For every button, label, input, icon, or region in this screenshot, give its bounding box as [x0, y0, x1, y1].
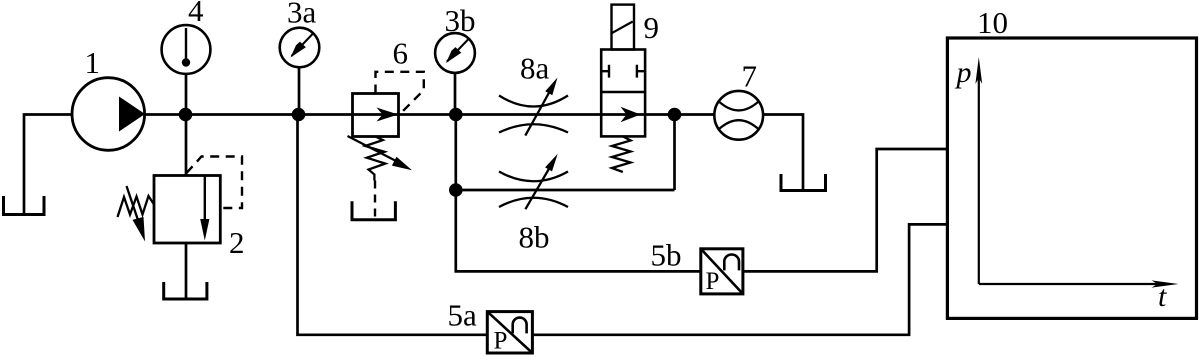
wire: flow meter 7 to tank T3: [763, 115, 803, 191]
wire: node B to valve 6 inlet: [299, 113, 353, 116]
wire: node C up to gauge 3b: [454, 73, 457, 115]
sensor 5a (pressure transducer): [487, 312, 532, 355]
svg-text:7: 7: [742, 59, 758, 94]
label 4: [188, 0, 204, 28]
svg-text:3a: 3a: [287, 0, 317, 30]
valve 9 open-position arrow: [601, 107, 645, 122]
node B (junction below gauge 3a): [292, 108, 306, 122]
svg-text:4: 4: [188, 0, 204, 28]
label 8a: [520, 51, 550, 86]
svg-text:P: P: [706, 268, 720, 295]
label t: [1158, 280, 1167, 313]
recorder 10 box: [947, 38, 1196, 318]
gauge 4 (thermometer): [162, 25, 211, 74]
node C (junction below gauge 3b): [449, 108, 463, 122]
valve 9 body (2/2 directional valve): [601, 50, 645, 137]
valve 6 spring: [365, 137, 385, 181]
svg-text:9: 9: [644, 10, 660, 45]
label 7: [742, 59, 758, 94]
pressure valve 6 body: [353, 94, 399, 137]
svg-text:t: t: [1158, 280, 1167, 313]
svg-text:p: p: [955, 56, 972, 89]
wire: node B down and right to sensor 5a: [298, 115, 488, 335]
valve 6 drain line (dashed): [374, 181, 376, 219]
valve 2 spring adjustment arrow: [127, 186, 146, 242]
tank T3 (return tank): [781, 174, 826, 191]
node D (branch junction to throttle 8b): [449, 183, 463, 197]
svg-text:P: P: [494, 328, 508, 355]
svg-text:1: 1: [85, 45, 101, 80]
wire: valve 9 outlet to node E: [645, 113, 675, 116]
relief valve 2 body: [154, 176, 220, 244]
label p: [955, 56, 972, 89]
wire: node A to node B: [185, 113, 299, 116]
valve 9 solenoid: [612, 5, 635, 50]
label 6: [393, 36, 409, 71]
label 3b: [445, 3, 476, 38]
label 9: [644, 10, 660, 45]
svg-text:6: 6: [393, 36, 409, 71]
throttle valve 8a: [499, 78, 568, 136]
wire: node B up to gauge 3a: [298, 67, 301, 115]
wire: tank T1 to pump inlet: [24, 115, 72, 214]
valve 9 return spring: [612, 136, 631, 172]
label 3a: [287, 0, 317, 30]
svg-text:8a: 8a: [520, 51, 550, 86]
wire: sensor 5b to recorder 10: [743, 149, 948, 271]
svg-text:8b: 8b: [519, 220, 550, 255]
gauge 3a (pressure gauge): [280, 28, 320, 68]
svg-text:2: 2: [229, 225, 245, 260]
tank T4 (below valve 6): [352, 201, 395, 220]
svg-text:5b: 5b: [651, 238, 682, 273]
label 8b: [519, 220, 550, 255]
pump 1: [72, 78, 145, 151]
wire: node C to valve 9 inlet (through throttle 8a): [456, 113, 601, 116]
throttle valve 8b: [499, 154, 568, 209]
p axis (vertical): [975, 57, 982, 284]
tank T2 (below valve 2): [164, 282, 207, 299]
wire: node D to throttle 8b to riser below node E: [456, 189, 675, 192]
wire: valve 6 outlet to node C: [399, 113, 457, 116]
valve 6 pilot line (dashed): [376, 72, 424, 114]
valve 2 spring (adjustable): [118, 196, 155, 217]
wire: node E to flow meter 7: [675, 113, 716, 116]
wire: node A up to gauge 4: [185, 74, 188, 115]
valve 9 closed-position port symbols: [601, 65, 645, 78]
valve 6 internal flow path with arrow: [353, 108, 399, 122]
valve 6 spring adjustment arrow: [348, 136, 413, 170]
valve 2 pilot line (dashed): [187, 157, 243, 209]
tank T1 (pump suction tank): [4, 196, 45, 215]
label 2: [229, 225, 245, 260]
label 5a: [448, 298, 478, 333]
label 10: [977, 5, 1008, 40]
wire: sensor 5a to recorder 10: [532, 224, 947, 334]
sensor 5b (pressure transducer): [701, 249, 743, 295]
wire: node A down to valve 2 inlet: [185, 115, 188, 176]
node A (junction below gauge 4): [179, 108, 193, 122]
wire: node E down to throttle 8b line: [673, 115, 676, 191]
wire: valve 2 outlet to tank T2: [185, 243, 188, 298]
svg-text:3b: 3b: [445, 3, 476, 38]
label 5b: [651, 238, 682, 273]
gauge 3b (pressure gauge): [435, 33, 475, 73]
valve 2 internal arrow: [200, 176, 209, 241]
node E (junction after valve 9): [668, 108, 682, 122]
t axis (horizontal): [979, 280, 1179, 287]
wire: node C down to node D and to sensor 5b: [456, 115, 701, 272]
svg-text:10: 10: [977, 5, 1008, 40]
svg-text:5a: 5a: [448, 298, 478, 333]
wire: pump outlet to node A: [145, 113, 187, 116]
label 1: [85, 45, 101, 80]
flow meter 7: [714, 91, 763, 140]
